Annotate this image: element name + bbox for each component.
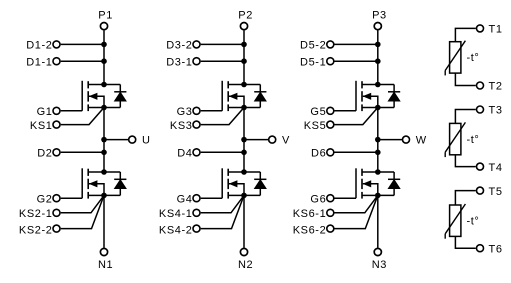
- svg-text:D1-2: D1-2: [26, 40, 52, 52]
- svg-text:G3: G3: [177, 106, 193, 118]
- svg-text:KS5: KS5: [304, 120, 327, 132]
- svg-text:D5-2: D5-2: [300, 40, 326, 52]
- svg-text:G4: G4: [177, 194, 193, 206]
- svg-text:T5: T5: [489, 186, 503, 198]
- svg-text:D3-2: D3-2: [166, 40, 192, 52]
- svg-text:-t°: -t°: [467, 216, 480, 228]
- svg-text:G2: G2: [37, 194, 53, 206]
- svg-text:KS3: KS3: [170, 120, 193, 132]
- svg-text:KS4-1: KS4-1: [159, 208, 193, 220]
- svg-text:G6: G6: [310, 194, 326, 206]
- svg-text:D2: D2: [37, 148, 52, 160]
- svg-text:D1-1: D1-1: [26, 57, 52, 69]
- svg-text:G5: G5: [310, 106, 326, 118]
- svg-text:D5-1: D5-1: [300, 57, 326, 69]
- svg-text:T3: T3: [489, 105, 503, 117]
- svg-text:KS6-1: KS6-1: [293, 208, 327, 220]
- svg-text:V: V: [282, 135, 290, 147]
- svg-text:T2: T2: [489, 81, 503, 93]
- svg-text:KS4-2: KS4-2: [159, 224, 193, 236]
- svg-text:N1: N1: [98, 259, 113, 271]
- svg-text:T1: T1: [489, 24, 503, 36]
- svg-text:T4: T4: [489, 162, 503, 174]
- svg-text:P1: P1: [98, 10, 113, 22]
- svg-text:N2: N2: [238, 259, 253, 271]
- svg-text:KS1: KS1: [30, 120, 53, 132]
- svg-text:P2: P2: [238, 10, 253, 22]
- svg-text:P3: P3: [372, 10, 387, 22]
- svg-text:W: W: [416, 135, 427, 147]
- svg-text:D3-1: D3-1: [166, 57, 192, 69]
- svg-text:G1: G1: [37, 106, 53, 118]
- svg-text:D4: D4: [177, 148, 192, 160]
- svg-text:KS2-1: KS2-1: [19, 208, 53, 220]
- svg-text:T6: T6: [489, 243, 503, 255]
- svg-text:-t°: -t°: [467, 134, 480, 146]
- svg-text:U: U: [142, 135, 151, 147]
- svg-text:KS6-2: KS6-2: [293, 224, 327, 236]
- svg-text:KS2-2: KS2-2: [19, 224, 53, 236]
- svg-text:-t°: -t°: [467, 52, 480, 64]
- svg-text:D6: D6: [311, 148, 326, 160]
- svg-text:N3: N3: [372, 259, 387, 271]
